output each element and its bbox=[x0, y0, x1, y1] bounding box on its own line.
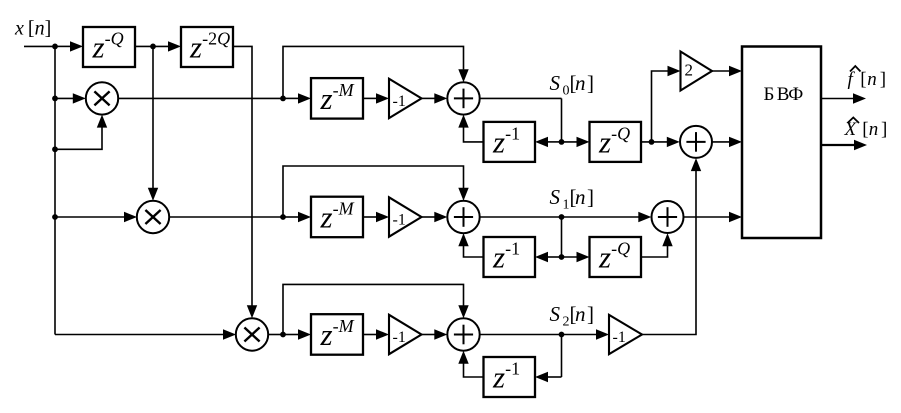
adder A4 row 0 bbox=[680, 126, 712, 158]
wire tap to delay z^-M row 1 bbox=[283, 216, 299, 218]
wire M3 output to comb row 2 bbox=[268, 334, 283, 336]
wire z^-M to amplifier row 1 bbox=[363, 216, 377, 218]
node feed-forward tap row 0 bbox=[280, 96, 286, 102]
wire adder A4 to BVF bbox=[712, 141, 730, 143]
svg-text:-1: -1 bbox=[393, 212, 406, 229]
multiplier M1 bbox=[86, 82, 118, 114]
wire S1 branch down bbox=[561, 217, 563, 257]
wire S2 branch down bbox=[561, 335, 563, 378]
wire amplifier to adder row 0 bbox=[422, 97, 435, 99]
delay block z^-Q row 0 bbox=[590, 122, 642, 162]
wire z^-1 feedback to adder A3 row 2 bbox=[464, 364, 484, 378]
node feed-forward tap row 1 bbox=[280, 214, 286, 220]
wire tap to delay z^-M row 0 bbox=[283, 97, 299, 99]
delay block z^-1 row 1 bbox=[484, 237, 536, 277]
wire feed-forward row 2 bbox=[283, 284, 464, 334]
delay block z^-1 row 0 bbox=[484, 122, 536, 162]
wire z^-Q row 1 output to adder A5 bottom bbox=[641, 246, 668, 257]
delay block Z1 z^-Q bbox=[83, 27, 135, 67]
delay block z^-M row 2 bbox=[311, 314, 363, 355]
wire z^-1 feedback to adder A1 row 0 bbox=[464, 127, 484, 141]
delay block z^-M row 0 bbox=[311, 78, 363, 119]
wire output X bbox=[821, 144, 855, 146]
wire gain 2 to BVF bbox=[712, 70, 730, 72]
wire adder A2 output S1 bbox=[480, 216, 562, 218]
amplifier -1 row 2 output bbox=[609, 315, 642, 354]
wire amplifier to adder row 2 bbox=[422, 334, 435, 336]
wire z^-M to amplifier row 2 bbox=[363, 334, 377, 336]
wire amplifier to adder row 1 bbox=[422, 216, 435, 218]
node gain tap row 0 bbox=[649, 139, 655, 145]
node S2 branch bbox=[559, 332, 565, 338]
delay block z^-1 row 2 bbox=[484, 357, 536, 397]
svg-text:X[n]: X[n] bbox=[844, 119, 888, 140]
wire Z2 output to multiplier M3 top bbox=[233, 46, 252, 305]
amplifier -1 row 2 bbox=[389, 315, 422, 354]
svg-text:f[n]: f[n] bbox=[848, 69, 887, 90]
wire main bus vertical bbox=[54, 46, 56, 334]
delay block Z2 z^-2Q bbox=[181, 27, 233, 67]
wire to delay z^-Q row 0 bbox=[562, 141, 579, 143]
amplifier -1 row 1 bbox=[389, 197, 422, 236]
wire tap to delay z^-M row 2 bbox=[283, 334, 299, 336]
amplifier -1 row 0 bbox=[389, 79, 422, 118]
adder A2 row 1 bbox=[447, 201, 479, 233]
wire S1 to adder A5 bbox=[562, 216, 639, 218]
node delay branch row 0 bbox=[559, 139, 565, 145]
node feed-forward tap row 2 bbox=[280, 332, 286, 338]
svg-text:-1: -1 bbox=[393, 329, 406, 346]
wire M1 output to comb row 0 bbox=[118, 97, 283, 99]
delay block z^-Q row 1 bbox=[590, 237, 642, 277]
svg-text:S1[n]: S1[n] bbox=[550, 185, 595, 213]
wire Z1 tap to multiplier M2 top bbox=[152, 46, 154, 188]
wire bus to M3 left bbox=[55, 334, 223, 336]
wire to delay z^-Q row 1 bbox=[562, 256, 579, 258]
svg-text:2: 2 bbox=[685, 61, 694, 80]
adder A5 row 1 bbox=[652, 201, 684, 233]
wire tap up to gain 2 bbox=[652, 71, 668, 142]
svg-text:БВФ: БВФ bbox=[764, 84, 804, 105]
amplifier gain 2 bbox=[681, 52, 713, 91]
wire z^-M to amplifier row 0 bbox=[363, 97, 377, 99]
wire feed-forward row 0 bbox=[283, 46, 464, 98]
multiplier M2 bbox=[137, 201, 169, 233]
svg-text:-1: -1 bbox=[613, 329, 626, 346]
node bus tap feed bbox=[52, 146, 58, 152]
wire S2 to amplifier -1 bbox=[562, 334, 598, 336]
wire adder A3 output S2 bbox=[480, 334, 562, 336]
wire feed-forward row 1 bbox=[283, 166, 464, 217]
wire input x[n] bbox=[24, 45, 55, 47]
wire z^-1 feedback to adder A2 row 1 bbox=[464, 246, 484, 257]
node delay branch row 1 bbox=[559, 254, 565, 260]
wire output f bbox=[821, 98, 854, 100]
delay block z^-M row 1 bbox=[311, 197, 363, 238]
wire input to delay Z1 bbox=[55, 45, 71, 47]
svg-text:-1: -1 bbox=[393, 93, 406, 110]
wire adder A1 output S0 bbox=[480, 97, 562, 99]
svg-text:x [n]: x [n] bbox=[14, 18, 51, 40]
node S1 branch bbox=[559, 214, 565, 220]
wire amplifier -1 up to adder A4 bottom bbox=[642, 171, 696, 335]
wire to delay z^-1 row 0 bbox=[547, 141, 562, 143]
wire adder A5 to BVF bbox=[684, 216, 730, 218]
wire bus to M1 bottom bbox=[55, 128, 102, 150]
node bus tap row1 bbox=[52, 214, 58, 220]
multiplier M3 bbox=[236, 318, 268, 350]
wire z^-Q row 0 output bbox=[641, 141, 667, 143]
wire bus to M1 left bbox=[55, 97, 73, 99]
adder A1 row 0 bbox=[447, 82, 479, 114]
block BVF bbox=[742, 47, 821, 239]
node bus tap row0 bbox=[52, 96, 58, 102]
svg-text:S0[n]: S0[n] bbox=[550, 71, 595, 99]
wire bus to M2 left bbox=[55, 216, 124, 218]
node Z1 output tap bbox=[150, 44, 156, 50]
wire to delay z^-1 row 2 bbox=[547, 376, 562, 378]
wire to delay z^-1 row 1 bbox=[547, 256, 562, 258]
wire Z1 to Z2 bbox=[135, 45, 169, 47]
wire M2 output to comb row 1 bbox=[169, 216, 283, 218]
wire S0 branch down bbox=[561, 98, 563, 141]
adder A3 row 2 bbox=[447, 318, 479, 350]
node input tap bbox=[52, 44, 58, 50]
svg-text:S2[n]: S2[n] bbox=[550, 302, 595, 330]
